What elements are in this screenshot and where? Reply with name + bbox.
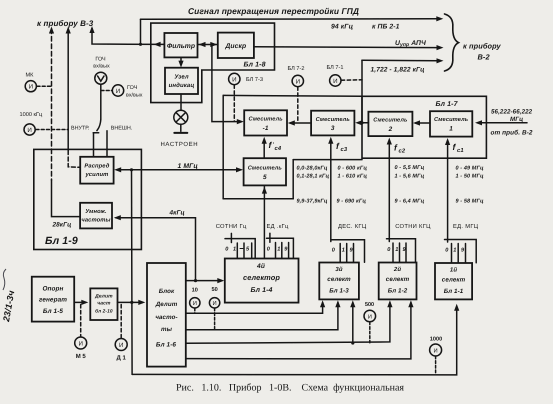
svg-text:индикац: индикац [169,82,195,89]
svg-text:3й: 3й [335,266,342,273]
wire generator to divider [74,301,86,303]
svg-text:9,9-37,9кГц: 9,9-37,9кГц [297,199,328,205]
svg-text:часто-: часто- [155,314,177,321]
svg-text:ВНЕШН.: ВНЕШН. [111,126,132,132]
bus A divider to selector 3 [186,303,323,314]
wire switch contact internal [93,133,95,157]
svg-text:1 - 5,6 МГц: 1 - 5,6 МГц [395,173,425,179]
svg-text:И: И [213,301,217,307]
svg-text:Узел: Узел [174,74,189,81]
svg-text:И: И [296,78,300,85]
wire 1MHz vertical distribution [131,170,134,375]
svg-text:СОТНИ КГЦ: СОТНИ КГЦ [395,223,431,230]
svg-text:ГОЧ: ГОЧ [127,85,138,91]
svg-text:9 - 58 МГц: 9 - 58 МГц [456,199,484,205]
svg-text:Смеситель: Смеситель [373,118,408,124]
svg-text:1: 1 [342,248,345,254]
wire filter to indicator unit [180,57,182,64]
svg-text:селектор: селектор [243,273,280,282]
svg-text:И: И [116,88,120,95]
svg-text:0 - 600 кГц: 0 - 600 кГц [338,165,368,171]
svg-text:94 кГц: 94 кГц [331,24,354,31]
svg-text:с3: с3 [341,146,348,153]
svg-text:Сигнал прекращения перестройки: Сигнал прекращения перестройки ГПД [188,6,359,16]
block mixer 3 [311,111,354,136]
connector I Bl 7-3 [229,73,240,84]
svg-text:ЕД. МГЦ: ЕД. МГЦ [453,224,479,230]
svg-text:Бл 1-4: Бл 1-4 [250,287,272,294]
block reference generator Bl 1-5 [32,277,74,322]
block indicator unit [165,68,198,94]
wire GOCh to switch common [100,84,102,119]
block mixer 2 [368,112,412,136]
svg-text:10: 10 [192,288,198,294]
svg-text:4й: 4й [256,263,265,270]
wire signal stop GPD retuning [141,18,439,21]
svg-text:Бл 1-2: Бл 1-2 [388,288,408,295]
svg-text:Распред: Распред [84,163,109,170]
svg-text:частоты: частоты [81,218,110,224]
svg-text:вх/вых: вх/вых [93,64,110,70]
svg-text:БЛ 7-2: БЛ 7-2 [288,66,305,72]
wire selector 4 feed to mixer 5 [263,192,265,258]
svg-text:ЕД .кГц: ЕД .кГц [267,224,289,230]
svg-text:1: 1 [233,247,236,253]
svg-text:Бл 1-5: Бл 1-5 [43,308,64,315]
svg-text:-1: -1 [263,125,269,132]
svg-text:Бл 1-9: Бл 1-9 [45,235,78,247]
bus E 1MHz to selector 1 [132,307,457,375]
block selector 4 Bl 1-4 [225,259,299,303]
svg-text:НАСТРОЕН: НАСТРОЕН [161,141,199,148]
svg-text:И: И [78,341,82,348]
svg-text:И: И [119,342,123,349]
wire f'c4 from mixer 5 to mixer -1 [263,141,265,158]
svg-text:генерат: генерат [39,297,67,304]
svg-text:Бл 1-6: Бл 1-6 [156,342,177,349]
wire input 56-66 MHz from device V-2 [478,122,527,124]
svg-text:Умнож.: Умнож. [85,209,107,215]
svg-text:бл 2-10: бл 2-10 [95,309,113,315]
wire 1MHz distribution [117,169,241,171]
connector I GOCh in/out [101,90,112,92]
svg-text:1000: 1000 [430,337,442,343]
svg-text:Uупр АПЧ: Uупр АПЧ [395,40,426,48]
svg-text:2й: 2й [393,266,401,273]
svg-text:1000 кГц: 1000 кГц [20,112,43,118]
svg-text:усилит: усилит [84,172,108,178]
connector I Bl 7-1 [330,75,341,86]
svg-text:Блок: Блок [159,288,175,295]
wire 28kHz to V-3 (dashed riser from Umnozh chastoty) [51,29,53,180]
wire fc3 from selector 3 to mixer 3 [330,141,332,242]
svg-text:к прибору: к прибору [463,42,502,51]
svg-text:5: 5 [263,174,267,181]
wire rail right riser [292,160,294,199]
block mixer 1 [430,111,472,136]
block boundary Bl 1-7 [362,96,486,158]
wire switch contact external [106,131,108,157]
svg-text:с4: с4 [275,146,282,152]
wire 4kHz into selector 4 [186,280,222,282]
svg-text:1: 1 [395,247,398,253]
block mixer -1 [244,110,287,135]
svg-text:СОТНИ Гц: СОТНИ Гц [216,223,247,230]
svg-text:1: 1 [277,247,280,253]
svg-text:селект: селект [386,276,410,283]
svg-text:Делит: Делит [94,294,113,300]
wire table top rail [293,159,362,161]
block boundary Bl 1-8 [151,23,275,103]
svg-text:Смеситель: Смеситель [316,117,351,123]
block discriminator [218,33,254,58]
block selector 2 Bl 1-2 [379,263,417,300]
connector I M5 [80,305,82,337]
brace to device V-2 [445,14,459,71]
svg-text:50: 50 [211,287,217,293]
svg-text:В-2: В-2 [478,53,491,62]
svg-text:Опорн: Опорн [42,286,63,293]
svg-text:0 - 49 МГц: 0 - 49 МГц [456,165,484,171]
wire mixer2 to mixer3 [358,122,369,124]
svg-text:Бл 1-7: Бл 1-7 [436,101,459,108]
svg-text:1: 1 [449,126,453,133]
svg-text:Дискр: Дискр [224,43,246,50]
block mixer 5 [244,158,286,185]
wire rail bottom run [223,198,293,200]
svg-text:ВНУТР.: ВНУТР. [71,126,89,132]
svg-text:с1: с1 [457,148,464,154]
svg-text:к прибору В-3: к прибору В-3 [37,19,94,28]
indicator lamp NASTROEN [180,94,182,110]
svg-text:9 - 6,4 МГц: 9 - 6,4 МГц [395,199,425,205]
svg-text:Смеситель: Смеситель [248,165,283,171]
svg-text:селект: селект [327,276,351,283]
block selector 1 Bl 1-1 [435,263,472,299]
svg-text:И: И [29,84,33,91]
block divider 2:10 [90,288,117,320]
block selector 3 Bl 1-3 [319,263,359,300]
wire mixer1 to mixer2 [416,122,430,124]
svg-text:Смеситель: Смеситель [434,117,469,123]
wire discriminator output Uupr [254,46,439,49]
svg-text:4кГц: 4кГц [169,210,185,217]
svg-text:И: И [368,314,372,320]
wire fc2 from selector 2 to mixer 2 [388,142,390,242]
svg-text:И: И [232,76,236,83]
svg-text:1,722 - 1,822 кГц: 1,722 - 1,822 кГц [371,67,425,74]
svg-text:1: 1 [453,248,456,254]
wire mixer3 to mixer-1 [290,122,311,124]
svg-text:Бл 1-8: Бл 1-8 [244,62,266,69]
svg-text:9 - 690 кГц: 9 - 690 кГц [337,199,367,205]
svg-text:1й: 1й [450,267,457,274]
svg-text:И: И [27,127,31,134]
junction at filter/discriminator input [210,43,213,46]
svg-text:2: 2 [388,126,393,133]
svg-text:Фильтр: Фильтр [167,43,195,50]
wire tee down to filter output [140,19,142,44]
svg-text:БЛ 7-3: БЛ 7-3 [246,77,263,83]
svg-text:28кГц: 28кГц [52,222,72,229]
wire divider to divider block [118,301,143,303]
wire rail left riser [222,95,224,198]
svg-text:М 5: М 5 [76,353,87,360]
svg-text:1 - 50 МГц: 1 - 50 МГц [456,174,484,180]
svg-text:БЛ 7-1: БЛ 7-1 [327,65,344,71]
block distribution amplifier [80,157,113,184]
svg-text:3: 3 [331,125,335,132]
connector I D1 [120,305,122,339]
svg-text:част: част [97,301,111,307]
svg-text:И: И [333,78,337,85]
svg-text:МГц: МГц [510,116,523,123]
svg-text:Смеситель: Смеситель [248,117,283,123]
bus C divider to selectors 3 and 2 [186,303,390,344]
svg-text:Бл 1-1: Бл 1-1 [444,288,464,295]
junction 1MHz on divider wire [130,301,133,304]
bus B divider to selector 3 [186,303,338,330]
svg-text:вх/вых: вх/вых [126,93,143,99]
svg-text:МК: МК [26,73,35,79]
svg-text:0,0-28,0кГц: 0,0-28,0кГц [297,165,328,171]
connector I Bl 7-2 [292,75,303,86]
svg-text:от приб. В-2: от приб. В-2 [491,130,533,137]
bus D divider to selector 2 [186,303,411,359]
wire 94kHz riser from mixer -1 output [212,45,241,122]
svg-text:56,222-66,222: 56,222-66,222 [491,109,533,116]
svg-text:0 - 5,5 МГц: 0 - 5,5 МГц [395,165,425,171]
block filter [164,33,197,57]
svg-text:селект: селект [442,277,466,284]
svg-text:ты: ты [161,326,173,333]
wire filter output to V-3 arrow [92,29,164,45]
svg-text:с2: с2 [399,148,406,155]
wire 4kHz to multiplier and selector 4 [116,218,196,281]
block boundary Bl 1-9 [34,149,142,249]
block frequency divider unit Bl 1-6 [147,263,186,367]
wire between filter and discriminator [198,44,218,46]
svg-text:1 МГц: 1 МГц [178,163,199,170]
svg-text:500: 500 [365,302,374,308]
wire 94kHz top rail [223,94,362,97]
svg-text:Д 1: Д 1 [117,355,127,362]
block frequency multiplier [80,203,112,229]
svg-text:Делит: Делит [155,301,178,308]
svg-text:1 - 610 кГц: 1 - 610 кГц [338,173,368,179]
svg-text:ГОЧ: ГОЧ [95,57,106,63]
svg-text:Бл 1-3: Бл 1-3 [329,288,349,295]
wire 1000kHz to V-3 (solid riser) [67,29,69,151]
svg-text:0,1-28,1 кГц: 0,1-28,1 кГц [297,173,330,179]
svg-text:Рис. 1.10. Прибор 1-0В.: Рис. 1.10. Прибор 1-0В. Схема функционал… [176,383,404,394]
wire 1722-1822 kHz output [362,59,439,62]
svg-text:И: И [434,348,438,354]
svg-text:к ПБ 2-1: к ПБ 2-1 [372,24,400,31]
switch VNUTR/VNESHN blade [97,120,101,131]
svg-text:ДЕС. КГЦ: ДЕС. КГЦ [338,223,367,230]
wire fc1 from selector 1 to mixer 1 [447,142,449,243]
svg-text:И: И [193,301,197,307]
